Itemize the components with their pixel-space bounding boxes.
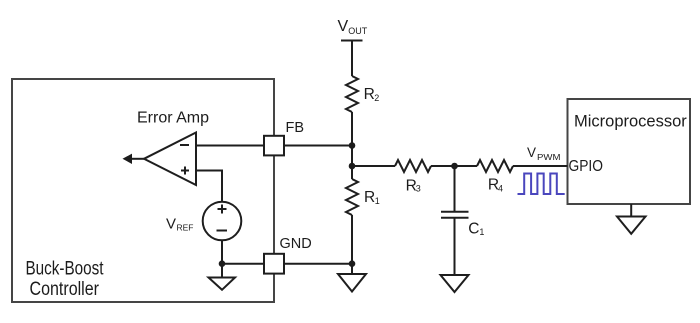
node VOUT label — [338, 18, 368, 41]
capacitor C1 — [441, 166, 484, 237]
svg-text:R: R — [364, 86, 375, 103]
wire C1 to ground — [454, 218, 456, 275]
node FB junction — [349, 142, 356, 149]
svg-text:2: 2 — [374, 93, 379, 103]
ground (under R1) — [338, 274, 366, 292]
voltage source VREF — [166, 202, 241, 241]
wire op-amp minus input to FB pin — [196, 145, 264, 147]
svg-text:Error Amp: Error Amp — [137, 110, 209, 127]
ground (under Microprocessor) — [617, 217, 646, 234]
svg-text:GND: GND — [280, 236, 312, 252]
node: Vref ground junction — [219, 260, 226, 267]
Buck-Boost Controller box — [12, 79, 274, 302]
wire VOUT to R2 — [351, 41, 353, 77]
wire Vref bottom to ground node — [221, 240, 223, 264]
pin GND — [264, 236, 312, 274]
svg-text:4: 4 — [498, 183, 503, 193]
svg-text:Controller: Controller — [30, 279, 100, 300]
net label VPWM — [527, 145, 561, 162]
svg-text:OUT: OUT — [348, 26, 368, 36]
svg-text:C: C — [468, 220, 479, 237]
svg-text:PWM: PWM — [537, 152, 561, 162]
wire R3 to C1 node — [431, 165, 477, 167]
pin FB — [264, 120, 304, 155]
wire junction to GND pin — [222, 263, 264, 265]
wire microprocessor to ground — [630, 204, 632, 217]
svg-text:FB: FB — [286, 120, 305, 136]
svg-text:V: V — [166, 215, 176, 232]
Microprocessor box — [568, 99, 691, 204]
ground (under VREF) — [209, 264, 236, 290]
wire GND pin to R1 ground — [284, 263, 352, 265]
op-amp output wire with arrow — [123, 154, 145, 164]
wire divider node to R3 — [352, 165, 395, 167]
svg-text:Microprocessor: Microprocessor — [574, 113, 687, 131]
node C1 junction — [451, 163, 458, 170]
PWM waveform symbol — [518, 174, 565, 195]
wire R4 to GPIO — [513, 165, 568, 167]
wire FB pin to feedback node — [284, 145, 352, 147]
svg-text:3: 3 — [416, 183, 421, 193]
svg-text:V: V — [527, 145, 536, 160]
svg-text:V: V — [338, 18, 349, 35]
svg-text:REF: REF — [177, 223, 194, 233]
op-amp U1 Error Amp — [137, 110, 209, 186]
wire op-amp plus input to Vref — [196, 171, 222, 203]
svg-text:1: 1 — [479, 227, 484, 237]
wire R2 to feedback node — [351, 112, 353, 179]
node divider junction — [349, 163, 356, 170]
svg-text:1: 1 — [375, 196, 380, 206]
ground (under C1) — [441, 275, 469, 292]
resistor R1 — [346, 179, 380, 215]
resistor R4 — [477, 160, 513, 194]
wire R1 to ground — [351, 215, 353, 274]
resistor R3 — [395, 160, 431, 194]
svg-text:GPIO: GPIO — [569, 158, 604, 175]
resistor R2 — [346, 76, 379, 112]
node R1 ground junction — [349, 260, 356, 267]
svg-text:R: R — [364, 189, 375, 206]
svg-text:Buck-Boost: Buck-Boost — [26, 259, 105, 280]
